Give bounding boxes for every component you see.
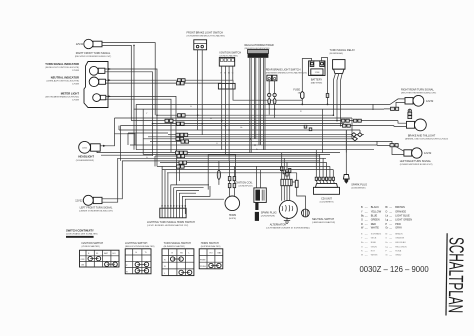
switch: front brake light switch bbox=[187, 32, 225, 50]
connector: inline pairs right harness bbox=[304, 119, 362, 141]
wire: coil primary leads bbox=[256, 166, 258, 188]
connector: inline bullet pairs center harness bbox=[165, 79, 189, 169]
table: ignition switch continuity bbox=[80, 242, 120, 267]
svg-text:----: ---- bbox=[389, 224, 392, 226]
svg-text:G: G bbox=[361, 219, 363, 222]
svg-text:----: ---- bbox=[389, 220, 392, 222]
svg-text:WEISS: WEISS bbox=[371, 255, 378, 257]
svg-text:GREEN: GREEN bbox=[371, 219, 380, 222]
label: switch continuity heading bbox=[66, 229, 98, 238]
svg-text:RIGHT FRONT TURN SIGNAL: RIGHT FRONT TURN SIGNAL bbox=[76, 52, 111, 55]
svg-text:IGNITION COIL: IGNITION COIL bbox=[235, 181, 253, 184]
svg-text:----: ---- bbox=[389, 211, 392, 213]
svg-text:HEADLIGHT: HEADLIGHT bbox=[78, 155, 94, 159]
lamp: right front turn signal 12V32 bbox=[75, 39, 112, 58]
connector pair on left rear harness bbox=[390, 144, 394, 147]
spark plug (CDI side) bbox=[343, 130, 367, 189]
wire: vertical branch risers bbox=[115, 104, 378, 166]
svg-text:----: ---- bbox=[365, 255, 368, 257]
svg-text:GELB: GELB bbox=[371, 238, 377, 240]
svg-text:SCHALTPLAN: SCHALTPLAN bbox=[444, 237, 468, 313]
svg-text:(HUPENSCHALTER): (HUPENSCHALTER) bbox=[201, 245, 221, 248]
lamp: left front turn signal 12V32 bbox=[75, 195, 113, 212]
svg-text:SWITCH CONTINUITY: SWITCH CONTINUITY bbox=[66, 229, 94, 233]
svg-text:(HUPE): (HUPE) bbox=[229, 218, 236, 220]
svg-text:O: O bbox=[385, 210, 387, 213]
connector: alternator coupler bbox=[281, 179, 292, 185]
lamp: headlight bbox=[76, 141, 100, 161]
svg-text:SPARK PLUG: SPARK PLUG bbox=[261, 211, 277, 214]
neutral switch bbox=[302, 209, 336, 224]
svg-text:(ZUNDKERZE): (ZUNDKERZE) bbox=[351, 187, 365, 189]
svg-text:----: ---- bbox=[365, 242, 368, 244]
wire: battery positive lead bbox=[322, 58, 328, 105]
svg-text:(LEERLAUFSCHALTER): (LEERLAUFSCHALTER) bbox=[312, 221, 335, 224]
wire: left front turn signal feeds bbox=[102, 161, 320, 199]
wire: ignition switch leads bbox=[221, 66, 223, 150]
svg-text:HO: HO bbox=[113, 253, 117, 255]
svg-text:----: ---- bbox=[389, 247, 392, 249]
alternator bbox=[266, 200, 310, 229]
svg-text:LIGHTING SWITCH: LIGHTING SWITCH bbox=[125, 242, 148, 245]
svg-text:----: ---- bbox=[389, 255, 392, 257]
regulator/rectifier bbox=[245, 44, 274, 58]
svg-text:(RECHTER HINTERER BLINKLICHT): (RECHTER HINTERER BLINKLICHT) bbox=[401, 92, 437, 94]
svg-text:12V32: 12V32 bbox=[76, 43, 84, 46]
lamp: neutral indicator 12V3W bbox=[47, 76, 106, 87]
svg-text:BLUE: BLUE bbox=[371, 215, 378, 218]
svg-text:(HINTERER BREMSLICHTSCHALTER 1: (HINTERER BREMSLICHTSCHALTER 12V) bbox=[266, 72, 307, 75]
svg-text:----: ---- bbox=[389, 251, 392, 253]
label: SCHALTPLAN title (rotated) bbox=[444, 233, 468, 316]
svg-text:Br: Br bbox=[228, 72, 230, 75]
legend: wire color code (german) bbox=[361, 232, 407, 256]
wire: relay leads bbox=[333, 74, 335, 116]
svg-text:(LINKER HINTERER BLINKLICHT): (LINKER HINTERER BLINKLICHT) bbox=[400, 164, 433, 166]
svg-text:HORN: HORN bbox=[229, 214, 237, 217]
svg-text:LIGHTING TURN SIGNAL HORN: LIGHTING TURN SIGNAL HORN SWITCH bbox=[147, 221, 195, 224]
svg-text:(BLINKERSCHALTER): (BLINKERSCHALTER) bbox=[164, 245, 186, 248]
wire: alternator leads with bullet connectors bbox=[282, 186, 290, 201]
legend: wire color code (english) bbox=[361, 206, 412, 229]
lamp: left rear turn signal 12V32 bbox=[400, 148, 433, 166]
svg-text:RIGHT REAR TURN SIGNAL: RIGHT REAR TURN SIGNAL bbox=[401, 88, 434, 91]
lamp: meter light 12V3W bbox=[45, 92, 105, 102]
connector: handlebar switch coupler bbox=[147, 208, 195, 227]
connector pair on tail harness bbox=[391, 107, 395, 110]
wire: right rear turn signal leads bbox=[373, 99, 405, 105]
svg-text:FUSE: FUSE bbox=[293, 89, 300, 92]
svg-text:(BELEUCHTUNGSSCHALTER): (BELEUCHTUNGSSCHALTER) bbox=[125, 245, 155, 248]
wire: tiny color code labels on harness bbox=[146, 106, 302, 159]
svg-text:----: ---- bbox=[389, 238, 392, 240]
svg-text:LIGHT BLUE: LIGHT BLUE bbox=[395, 215, 410, 218]
svg-text:ALTERNATOR: ALTERNATOR bbox=[270, 224, 287, 227]
wire: left rear turn signal leads bbox=[377, 146, 404, 152]
wire: fuse to battery bbox=[302, 59, 311, 92]
wire: extra harness segments bbox=[131, 120, 133, 122]
svg-text:PUSH: PUSH bbox=[200, 266, 206, 268]
svg-text:----: ---- bbox=[389, 207, 392, 209]
svg-text:12V32: 12V32 bbox=[424, 152, 432, 155]
svg-text:METER LIGHT: METER LIGHT bbox=[61, 92, 80, 96]
svg-text:ROT: ROT bbox=[371, 251, 376, 253]
svg-text:BRAUN: BRAUN bbox=[395, 232, 403, 235]
svg-text:SCHWARZ: SCHWARZ bbox=[371, 232, 382, 235]
svg-text:LIGHT GREEN: LIGHT GREEN bbox=[395, 219, 412, 222]
svg-text:Gr: Gr bbox=[385, 226, 388, 229]
svg-text:BLAU: BLAU bbox=[371, 241, 377, 244]
svg-text:BLACK: BLACK bbox=[371, 206, 380, 209]
svg-text:IGNITION SWITCH: IGNITION SWITCH bbox=[82, 242, 104, 245]
ignition coil bbox=[235, 181, 266, 202]
svg-text:(CDI-EINHEIT): (CDI-EINHEIT) bbox=[320, 201, 334, 203]
table: horn switch continuity bbox=[199, 242, 223, 269]
svg-text:ORANGE: ORANGE bbox=[395, 237, 405, 240]
svg-text:LEFT REAR TURN SIGNAL: LEFT REAR TURN SIGNAL bbox=[400, 160, 432, 163]
svg-text:----: ---- bbox=[365, 207, 368, 209]
svg-text:(LICHTMAGNETZUNDER M. SCHWUNGR: (LICHTMAGNETZUNDER M. SCHWUNGRAD) bbox=[266, 227, 310, 230]
svg-text:12V32: 12V32 bbox=[75, 200, 83, 203]
svg-text:----: ---- bbox=[365, 224, 368, 226]
svg-text:NEUTRAL SWITCH: NEUTRAL SWITCH bbox=[312, 218, 334, 221]
svg-text:Br: Br bbox=[256, 148, 258, 151]
svg-text:(LEERLAUF KONTROLLEUCHTE): (LEERLAUF KONTROLLEUCHTE) bbox=[47, 80, 80, 83]
wire: main harness bus bbox=[115, 104, 399, 172]
svg-text:HELLGRUN: HELLGRUN bbox=[395, 247, 407, 249]
svg-text:(SCHEINWERFER): (SCHEINWERFER) bbox=[76, 160, 95, 162]
svg-text:----: ---- bbox=[389, 242, 392, 244]
svg-text:(DURCHGANG DER SCHALTER): (DURCHGANG DER SCHALTER) bbox=[66, 233, 98, 236]
svg-text:12V25: 12V25 bbox=[82, 147, 87, 149]
lamp: right rear turn signal 12V32 bbox=[401, 88, 437, 106]
svg-text:GRAY: GRAY bbox=[395, 226, 402, 229]
svg-text:----: ---- bbox=[365, 238, 368, 240]
svg-text:(LINKER VORDERER BLINKLICHT): (LINKER VORDERER BLINKLICHT) bbox=[79, 211, 113, 213]
svg-text:(BLINKRELAIS): (BLINKRELAIS) bbox=[330, 52, 344, 55]
svg-text:TURN SIGNAL SWITCH: TURN SIGNAL SWITCH bbox=[164, 242, 191, 245]
svg-text:HORN SWITCH: HORN SWITCH bbox=[201, 242, 219, 245]
svg-text:HO: HO bbox=[180, 253, 184, 255]
svg-text:TURN SIGNAL RELAY: TURN SIGNAL RELAY bbox=[330, 49, 356, 52]
svg-text:GRUN: GRUN bbox=[371, 247, 378, 249]
relay: turn signal relay bbox=[330, 49, 356, 74]
svg-text:YELLOW: YELLOW bbox=[371, 210, 382, 213]
svg-text:ON: ON bbox=[81, 264, 85, 266]
svg-text:----: ---- bbox=[365, 251, 368, 253]
wire: headlight leads bbox=[100, 134, 135, 146]
svg-text:GRAU: GRAU bbox=[395, 254, 402, 257]
svg-text:ROSA: ROSA bbox=[395, 250, 402, 253]
svg-text:IGNITION SWITCH: IGNITION SWITCH bbox=[220, 52, 242, 55]
svg-text:OFF: OFF bbox=[81, 259, 86, 261]
battery 12V bbox=[309, 61, 325, 85]
svg-text:(BATTERIE): (BATTERIE) bbox=[311, 82, 323, 85]
connector: ignition switch coupler bbox=[218, 83, 235, 89]
svg-text:(LICHT- BLINKER- HUPENSCHALTER: (LICHT- BLINKER- HUPENSCHALTER 12V) bbox=[147, 224, 188, 227]
svg-text:TURN SIGNAL INDICATOR: TURN SIGNAL INDICATOR bbox=[45, 62, 79, 66]
svg-text:(VORDERER BREMSLICHTSCHALTER): (VORDERER BREMSLICHTSCHALTER) bbox=[187, 35, 225, 38]
wire: horn leads with bullet connectors bbox=[229, 161, 231, 197]
svg-text:12V3W: 12V3W bbox=[72, 100, 79, 102]
svg-text:(ZUNDSPULE): (ZUNDSPULE) bbox=[239, 185, 253, 187]
fuse 7A bbox=[293, 89, 304, 100]
svg-text:LEFT FRONT TURN SIGNAL: LEFT FRONT TURN SIGNAL bbox=[80, 207, 113, 210]
svg-text:(INSTRUMENTENBELEUCHTUNG): (INSTRUMENTENBELEUCHTUNG) bbox=[45, 97, 79, 99]
table: turn signal switch continuity bbox=[162, 242, 194, 276]
svg-text:SPARK PLUG: SPARK PLUG bbox=[351, 183, 367, 186]
svg-text:HELLBLAU: HELLBLAU bbox=[395, 241, 406, 244]
svg-text:12V3W: 12V3W bbox=[72, 84, 79, 86]
wire: front brake switch leads bbox=[197, 50, 199, 130]
switch: ignition switch connector bbox=[219, 52, 241, 67]
svg-text:(BLINKLICHT KONTROLLEUCHTE): (BLINKLICHT KONTROLLEUCHTE) bbox=[45, 67, 79, 69]
svg-text:WHITE: WHITE bbox=[371, 226, 379, 229]
wire: handlebar switch harness bbox=[161, 166, 163, 208]
wire: rear brake switch leads with bullet connectors bbox=[268, 81, 270, 115]
svg-text:12V3W: 12V3W bbox=[72, 70, 79, 72]
svg-text:12V32: 12V32 bbox=[426, 100, 434, 103]
wire: speedometer bulb leads bbox=[105, 69, 157, 166]
wire: HT lead bbox=[255, 202, 258, 210]
wire: harness loop to horn area bbox=[208, 155, 235, 190]
svg-text:CDI UNIT: CDI UNIT bbox=[321, 197, 332, 200]
table: lighting switch continuity bbox=[125, 242, 155, 274]
node: pin arrows into handlebar coupler bbox=[161, 205, 186, 207]
speedometer housing bbox=[84, 62, 108, 108]
wire: regulator leads bbox=[250, 58, 251, 153]
svg-text:Gr: Gr bbox=[385, 254, 388, 257]
resistor: neutral lead connector bbox=[295, 180, 298, 187]
svg-text:IG: IG bbox=[96, 253, 99, 255]
svg-text:----: ---- bbox=[365, 211, 368, 213]
spark plug under coil bbox=[255, 211, 277, 221]
svg-text:BROWN: BROWN bbox=[395, 206, 405, 209]
svg-text:0030Z – 126 – 9000: 0030Z – 126 – 9000 bbox=[360, 265, 430, 274]
lamp: brake and taillight bbox=[405, 109, 449, 141]
svg-text:(ZUNDKERZE): (ZUNDKERZE) bbox=[261, 215, 275, 217]
lamp: turn signal indicator 12V3W bbox=[45, 62, 105, 75]
svg-text:FREE: FREE bbox=[200, 260, 206, 262]
svg-text:REAR BRAKE LIGHT SWITCH: REAR BRAKE LIGHT SWITCH bbox=[266, 69, 301, 72]
horn bbox=[225, 196, 240, 220]
svg-text:(ZUNDSCHALTER): (ZUNDSCHALTER) bbox=[82, 245, 100, 248]
CDI unit bbox=[314, 177, 340, 203]
switch: rear brake light switch bbox=[266, 69, 307, 81]
svg-text:----: ---- bbox=[365, 220, 368, 222]
svg-text:----: ---- bbox=[389, 216, 392, 218]
svg-text:FRONT BRAKE LIGHT SWITCH: FRONT BRAKE LIGHT SWITCH bbox=[187, 32, 223, 35]
svg-text:(BREMS- UND SCHLUSSLEUCHTE) 12: (BREMS- UND SCHLUSSLEUCHTE) 12V32/4 bbox=[405, 139, 449, 141]
ground: alternator bbox=[284, 217, 290, 223]
svg-text:(RECHTER VORDERER BLINKLICHT): (RECHTER VORDERER BLINKLICHT) bbox=[75, 56, 112, 58]
svg-text:REGULATOR/RECTIFIER: REGULATOR/RECTIFIER bbox=[245, 44, 274, 47]
svg-text:----: ---- bbox=[365, 227, 368, 229]
svg-text:HO: HO bbox=[210, 253, 214, 255]
wire: taillight leads bbox=[409, 109, 411, 112]
node: harness junction dots bbox=[152, 104, 342, 146]
svg-text:Br: Br bbox=[385, 232, 387, 235]
svg-text:ORANGE: ORANGE bbox=[395, 210, 406, 213]
wire: right front turn signal feeds bbox=[102, 43, 155, 116]
svg-text:----: ---- bbox=[365, 233, 368, 235]
svg-text:Br: Br bbox=[385, 206, 388, 209]
svg-text:BATTERY: BATTERY bbox=[311, 79, 323, 82]
svg-text:----: ---- bbox=[389, 227, 392, 229]
wire: CDI leads bbox=[316, 150, 333, 178]
svg-text:W: W bbox=[361, 255, 363, 257]
svg-text:----: ---- bbox=[389, 233, 392, 235]
svg-text:NEUTRAL INDICATOR: NEUTRAL INDICATOR bbox=[51, 76, 79, 80]
svg-text:----: ---- bbox=[365, 216, 368, 218]
svg-text:----: ---- bbox=[365, 247, 368, 249]
node: arrowheads into meter bbox=[108, 68, 111, 70]
svg-text:BRAKE AND TAILLIGHT: BRAKE AND TAILLIGHT bbox=[408, 135, 436, 138]
